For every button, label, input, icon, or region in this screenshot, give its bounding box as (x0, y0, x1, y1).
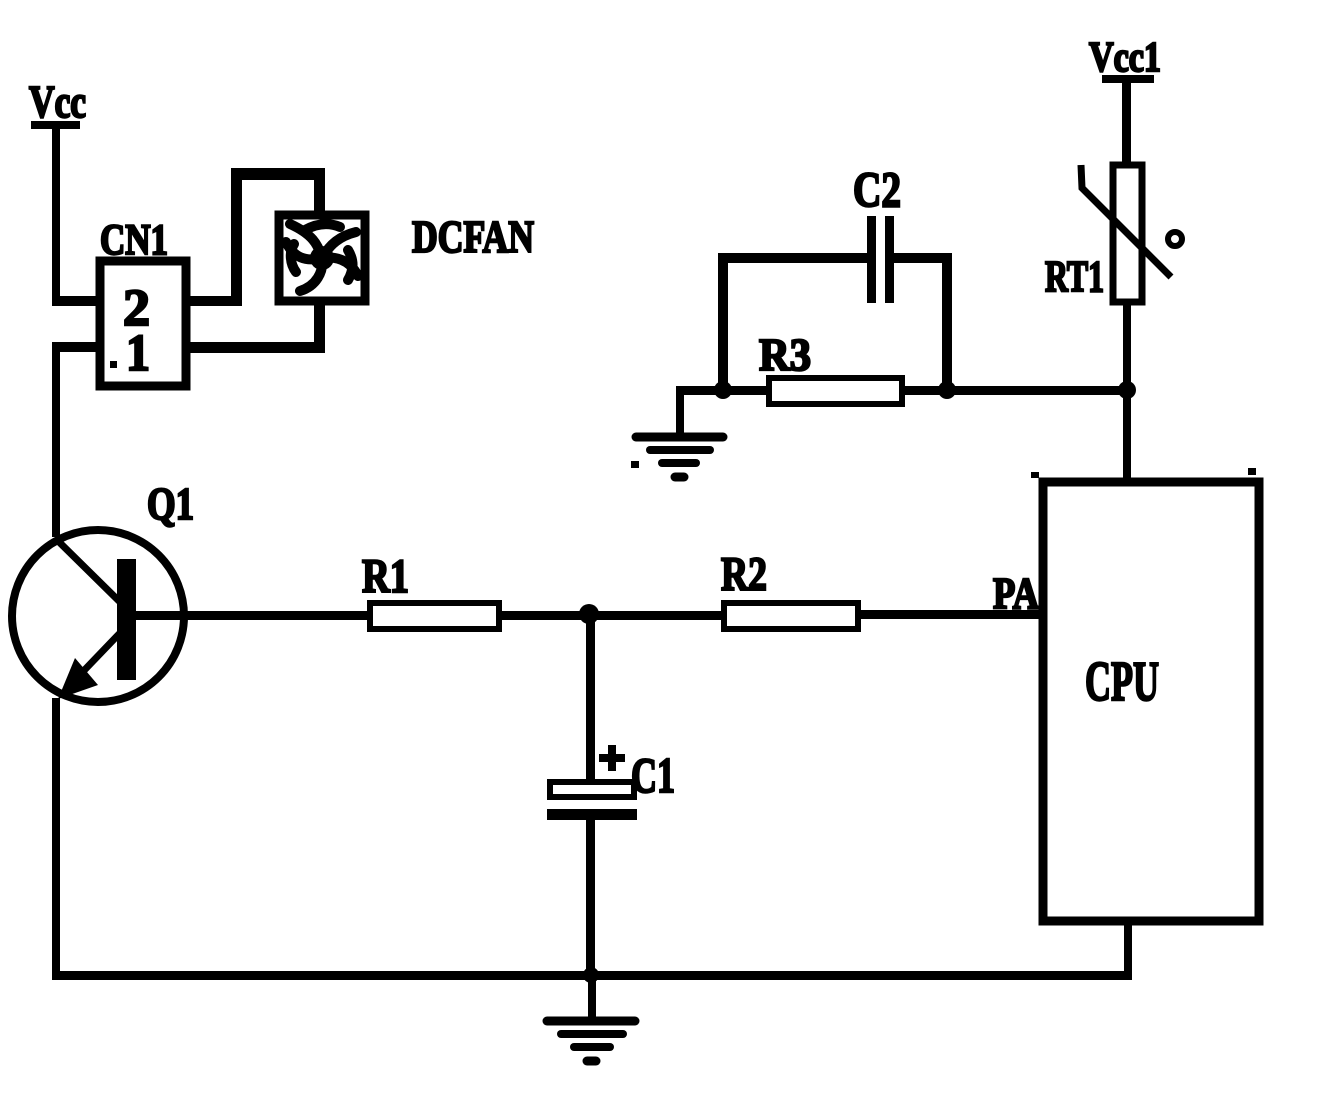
wire Vcc1 vertical (1122, 81, 1131, 165)
fan DCFAN blades (286, 224, 358, 291)
svg-text:PA: PA (993, 569, 1039, 618)
speck artifact (631, 461, 639, 468)
ground left symbol (636, 437, 723, 477)
ground bottom symbol (547, 1021, 635, 1061)
speck artifact CPU top-left corner (1031, 472, 1039, 478)
speck artifact inside CN1 (110, 361, 117, 368)
wire loop left vertical (231, 168, 242, 306)
wire C1 to ground rail (586, 820, 595, 978)
wire CN1 pin1 to fan bottom horizontal (186, 342, 325, 353)
node R3 left junction dot (714, 381, 732, 399)
wire C2 right horizontal (894, 253, 952, 263)
wire node to R2 (589, 611, 724, 620)
transistor Q1 base bar (117, 559, 136, 680)
resistor R2 (724, 603, 858, 629)
svg-text:1: 1 (126, 325, 150, 382)
wire node to C1 (586, 614, 595, 781)
wire Q1 emitter down (52, 698, 60, 978)
svg-text:C2: C2 (853, 161, 901, 217)
capacitor C2 left plate (867, 216, 876, 303)
svg-text:RT1: RT1 (1045, 252, 1104, 301)
wire C2 right vertical (942, 253, 952, 390)
power Vcc bar (31, 121, 80, 129)
node bottom junction dot (583, 967, 599, 983)
thermistor RT1 diagonal (1081, 165, 1171, 277)
wire Q1 base to R1 (136, 611, 368, 620)
speck artifact CPU top-right corner (1248, 468, 1256, 475)
thermistor RT1 body (1113, 165, 1142, 302)
svg-text:Vcc1: Vcc1 (1089, 35, 1161, 81)
svg-text:R3: R3 (759, 329, 811, 380)
wire R2 to CPU PA (858, 610, 1039, 619)
ground bottom stem (588, 975, 596, 1019)
svg-text:CN1: CN1 (100, 217, 168, 264)
svg-text:CPU: CPU (1085, 651, 1159, 713)
wire CN1 pin1 left (52, 342, 104, 352)
wire CN1 pin2 to loop (186, 296, 242, 306)
transistor Q1 collector diagonal (55, 538, 120, 602)
node C2 right junction dot (938, 381, 956, 399)
ground left stem (676, 390, 684, 433)
wire down to Q1 collector (52, 347, 60, 537)
transistor Q1 circle (12, 530, 184, 702)
power Vcc1 bar (1102, 75, 1154, 83)
connector CN1 box (100, 261, 186, 386)
wire C2 left horizontal (718, 253, 867, 263)
wire bottom ground rail (52, 971, 1132, 980)
capacitor C1 plus sign (599, 745, 625, 771)
wire R1 to node (501, 611, 591, 620)
svg-text:R2: R2 (721, 548, 767, 601)
wire C2 left vertical (718, 253, 728, 390)
thermistor RT1 degree circle (1168, 232, 1182, 246)
svg-text:DCFAN: DCFAN (412, 212, 534, 262)
capacitor C1 bottom plate (547, 809, 637, 820)
wire fan bottom vertical (314, 300, 325, 353)
svg-text:Q1: Q1 (147, 479, 194, 529)
wire Vcc to CN1 pin2 (52, 296, 100, 306)
node RT1 junction dot (1118, 381, 1136, 399)
capacitor C2 right plate (885, 216, 894, 303)
wire CPU bottom to ground rail (1124, 921, 1132, 978)
wire ground to R3 (676, 386, 769, 395)
svg-text:Vcc: Vcc (29, 77, 86, 127)
svg-text:R1: R1 (362, 550, 409, 603)
resistor R1 (370, 603, 499, 629)
wire loop right vertical to fan top (314, 168, 325, 216)
node junction dot (579, 604, 599, 624)
wire Vcc vertical (52, 126, 60, 304)
wire loop top horizontal (231, 168, 325, 180)
wire RT1 to CPU (1123, 302, 1131, 478)
transistor Q1 emitter diagonal (72, 633, 120, 683)
svg-text:C1: C1 (631, 747, 675, 803)
CPU block (1043, 482, 1259, 921)
capacitor C1 top plate (550, 782, 634, 797)
wire R3 to RT1 (902, 386, 1130, 395)
fan DCFAN box (279, 215, 365, 301)
resistor R3 (769, 378, 902, 404)
transistor Q1 emitter arrowhead (58, 658, 98, 699)
